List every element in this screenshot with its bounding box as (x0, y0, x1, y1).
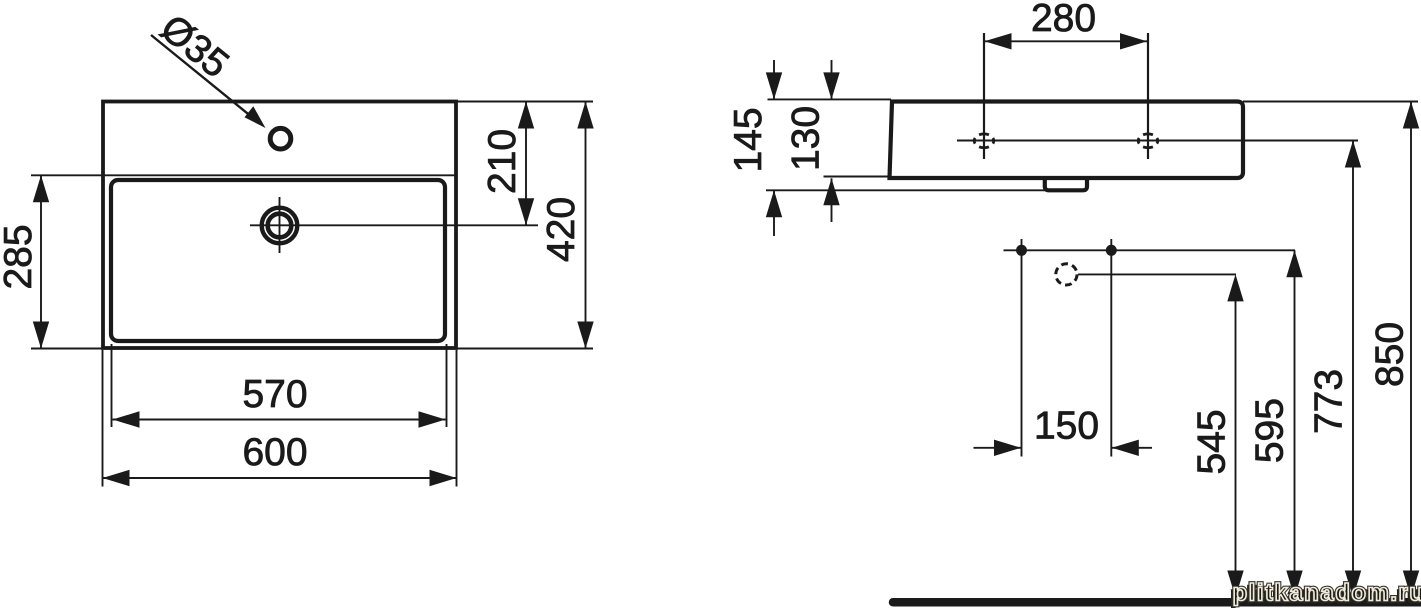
mounting hole right dashed circle (1138, 134, 1158, 148)
extension line bottom (285/420 dims) (31, 348, 593, 350)
svg-text:570: 570 (242, 373, 307, 416)
dimension 285 line (40, 175, 42, 348)
dimension 595 line (1294, 250, 1296, 597)
extension line body bottom (130) (824, 176, 891, 178)
dimension 420 arrow down (577, 322, 593, 349)
faucet hole circle (270, 128, 291, 149)
fixing dots line (1004, 249, 1296, 251)
svg-text:280: 280 (1031, 0, 1096, 40)
faucet leader line (151, 35, 258, 122)
dimension 130 arrow bottom (823, 178, 839, 205)
drain outlet dashed circle (1056, 264, 1077, 285)
svg-text:210: 210 (481, 129, 524, 194)
extension line 600 right (456, 350, 458, 487)
svg-text:420: 420 (540, 197, 583, 262)
dimension 570 line (113, 419, 446, 421)
overflow tab under body (1045, 178, 1087, 190)
extension line 570 right (446, 344, 448, 427)
floor line (893, 598, 1421, 607)
dimension 850 line (1410, 102, 1412, 598)
dimension 130 line top (831, 60, 833, 99)
faucet leader arrowhead (245, 106, 266, 128)
dimension 145 arrow bottom (766, 190, 782, 217)
extension line top of basin (285 dim) (31, 174, 457, 176)
svg-text:145: 145 (727, 107, 770, 172)
fixing dot right (1106, 245, 1117, 256)
dimension 130 line bottom (831, 178, 833, 222)
mounting holes centerline (957, 140, 1358, 142)
dimension 420 line (585, 102, 587, 349)
fixing dot left vertical line (1021, 239, 1023, 457)
dimension 570 arrow left (113, 411, 140, 427)
dimension 773 line (1352, 141, 1354, 598)
dimension 773 arrow bottom (1345, 571, 1361, 598)
dimension 145 line bottom (773, 190, 775, 236)
svg-text:plitkanadom.ru: plitkanadom.ru (1233, 580, 1421, 607)
dimension 285 arrow down (33, 322, 49, 349)
dimension 145 arrow top (766, 72, 782, 99)
svg-text:773: 773 (1308, 369, 1351, 434)
dimension 595 arrow bottom (1286, 571, 1302, 598)
dimension 210 arrow down (518, 198, 534, 225)
extension line top right (210/420 dims) (457, 101, 593, 103)
dimension 150 line right segment (1112, 447, 1152, 449)
dimension 150 arrow right (1112, 440, 1139, 456)
extension line hole right vertical (1147, 33, 1149, 159)
dimension 850 arrow top (1403, 102, 1419, 129)
svg-text:545: 545 (1190, 409, 1233, 474)
extension line hole left vertical (983, 33, 985, 159)
inner basin rectangle (111, 180, 445, 341)
svg-text:850: 850 (1369, 322, 1412, 387)
dimension 130 arrow top (823, 72, 839, 99)
dimension 600 line (103, 477, 457, 479)
drain crosshair horizontal + 210 extension line (250, 224, 538, 226)
outer rim rectangle (103, 102, 456, 349)
dimension 570 arrow right (419, 411, 446, 427)
extension line 570 left (111, 344, 113, 427)
dimension 210 line (525, 102, 527, 226)
svg-text:150: 150 (1034, 405, 1099, 448)
dimension 280 arrow left (985, 33, 1012, 49)
dimension 150 arrow left (994, 440, 1021, 456)
dimension 420 arrow up (577, 102, 593, 129)
dimension 285 arrow up (33, 175, 49, 202)
fixing dot left (1016, 245, 1027, 256)
dimension 600 arrow left (103, 470, 130, 486)
dimension 150 line left segment (974, 447, 1022, 449)
dimension 145 line top (773, 60, 775, 99)
extension line tab bottom (145) (766, 189, 1046, 191)
dimension 545 arrow top (1227, 274, 1243, 301)
dimension 545 line (1235, 278, 1237, 598)
dimension 545 arrow bottom (1227, 571, 1243, 598)
mounting hole left dashed circle (974, 134, 994, 148)
dimension 600 arrow right (430, 470, 457, 486)
extension line top left (145/130) (768, 98, 892, 100)
dimension 280 line (985, 40, 1148, 42)
svg-text:600: 600 (242, 431, 307, 474)
fixing dot right vertical line (1110, 239, 1112, 457)
drain outlet line (1078, 273, 1236, 275)
svg-text:595: 595 (1248, 398, 1291, 463)
extension line top right (850) (1243, 101, 1418, 103)
drain outer circle (262, 208, 298, 244)
dimension 280 arrow right (1120, 33, 1147, 49)
dimension 850 arrow bottom (1403, 571, 1419, 598)
drain inner circle (268, 214, 292, 238)
drain crosshair vertical (279, 197, 281, 253)
dimension 210 arrow up (518, 102, 534, 129)
dimension 595 arrow top (1286, 250, 1302, 277)
svg-text:285: 285 (0, 224, 40, 289)
extension line 600 left (102, 350, 104, 487)
dimension 773 arrow top (1345, 141, 1361, 168)
body outline (890, 102, 1244, 179)
svg-text:130: 130 (785, 106, 828, 171)
